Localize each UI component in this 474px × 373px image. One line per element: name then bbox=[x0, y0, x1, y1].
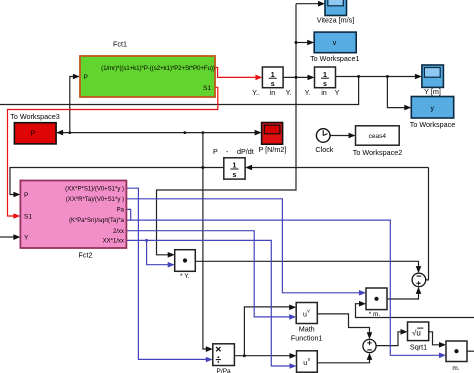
wire branch down to y workspace bbox=[387, 77, 405, 108]
wire blue Fct2 out6 to u^v2 bottom bbox=[126, 240, 291, 366]
wire blue Fct2 out4 to m. bottom bbox=[126, 220, 440, 355]
wire Math Function1 output to lower sum circle top bbox=[317, 314, 369, 335]
block u^v (second math function) bbox=[297, 351, 318, 372]
wire u^v2 output to lower sum circle bottom bbox=[317, 358, 369, 363]
svg-text:XX*1/xx: XX*1/xx bbox=[103, 239, 124, 245]
wire P/Pa output to u^v2 and Math Function1 bbox=[234, 355, 290, 357]
svg-text:P [N/m2]: P [N/m2] bbox=[258, 145, 286, 154]
svg-text:s: s bbox=[233, 172, 237, 179]
svg-text:Sqrt1: Sqrt1 bbox=[410, 342, 427, 351]
block Clock bbox=[315, 129, 333, 154]
svg-text:Y [m]: Y [m] bbox=[424, 87, 441, 96]
svg-text:P: P bbox=[24, 192, 28, 199]
wire y=317.5 from right edge into •m. bottom input bbox=[356, 304, 474, 318]
wire velocity vertical trunk x=296 down to *Y. bbox=[157, 4, 297, 255]
block integrator in (second 1/s) bbox=[315, 67, 336, 88]
svg-text:Y..: Y.. bbox=[252, 88, 260, 97]
wire P horizontal y=132.6 to To Workspace3 (left arrow) and P scope (right arrow) bbox=[61, 132, 256, 134]
sum circle top (dP/dt sum) bbox=[412, 273, 426, 287]
block To Workspace2 (ceas4) bbox=[353, 126, 402, 157]
svg-text:Pa: Pa bbox=[117, 208, 125, 214]
wire to v workspace bbox=[296, 42, 309, 44]
sum circle lower bbox=[363, 339, 376, 352]
wire lower circle output to Sqrt1 bbox=[376, 332, 402, 346]
svg-text:Viteza [m/s]: Viteza [m/s] bbox=[317, 16, 354, 25]
wire red S1 loop to Fct2 bbox=[8, 87, 218, 216]
block Math Function1 u^v bbox=[291, 303, 323, 343]
svg-text:P/Pa: P/Pa bbox=[217, 368, 231, 373]
svg-text:Y.: Y. bbox=[305, 88, 311, 97]
svg-text:dP/dt: dP/dt bbox=[237, 147, 254, 156]
wire blue Fct2 out5 to Math Function1 bottom bbox=[126, 231, 290, 317]
block product * Y. bbox=[175, 250, 196, 280]
svg-text:* Y.: * Y. bbox=[180, 273, 190, 280]
wire •m. output up into sum circle bottom bbox=[387, 292, 419, 299]
svg-text:(1/mr)*((s1+k1)*P-((s2+k1)*P2+: (1/mr)*((s1+k1)*P-((s2+k1)*P2+St*P0+Fu)) bbox=[101, 65, 215, 72]
wire Clock to ceas4 bbox=[330, 135, 350, 137]
wire P net: reversed integrator output to Fct2 P bbox=[10, 168, 224, 195]
svg-text:To Workspace1: To Workspace1 bbox=[310, 54, 359, 63]
svg-text:P: P bbox=[213, 147, 218, 156]
block To Workspace (y) bbox=[410, 97, 455, 130]
svg-text:To Workspace3: To Workspace3 bbox=[10, 112, 59, 121]
svg-text:s: s bbox=[271, 81, 275, 88]
wire *Y. output to top sum circle bbox=[195, 261, 418, 268]
wire Sqrt1 output to m. top bbox=[429, 332, 441, 345]
svg-text:* m.: * m. bbox=[369, 311, 381, 318]
svg-text:(K*Pa*Sn)/sqrt(Ta)*a: (K*Pa*Sn)/sqrt(Ta)*a bbox=[69, 218, 125, 224]
svg-text:in: in bbox=[321, 88, 327, 97]
svg-text:Fct1: Fct1 bbox=[113, 40, 127, 49]
block product m. bbox=[446, 341, 467, 372]
block Fct2 bbox=[20, 181, 126, 260]
wire m. output to right edge bbox=[467, 350, 474, 352]
block reversed integrator 1/s (dP/dt) bbox=[224, 158, 245, 179]
block integrator in (first 1/s) bbox=[262, 67, 283, 88]
svg-text:m.: m. bbox=[452, 365, 459, 372]
svg-text:y: y bbox=[431, 105, 435, 112]
svg-text:(XX*P*S1)/(V0+S1*y ): (XX*P*S1)/(V0+S1*y ) bbox=[65, 187, 124, 193]
block divide P/Pa bbox=[213, 344, 235, 373]
wire Y input of Fct2 from left edge bbox=[0, 236, 15, 238]
wire blue Fct2 out1 to P/Pa bottom bbox=[126, 188, 207, 359]
svg-text:√u: √u bbox=[412, 328, 421, 337]
svg-text:ceas4: ceas4 bbox=[369, 133, 387, 140]
svg-text:P: P bbox=[31, 130, 36, 137]
svg-text:S1: S1 bbox=[24, 213, 32, 220]
wire P up to Fct1 input bbox=[70, 77, 74, 133]
svg-text:To Workspace: To Workspace bbox=[410, 120, 455, 129]
svg-text:Y.: Y. bbox=[286, 88, 292, 97]
wire blue Fct2 out2 to •m. top bbox=[126, 199, 360, 293]
block product • m. bbox=[366, 288, 387, 318]
svg-text:To Workspace2: To Workspace2 bbox=[353, 148, 402, 157]
arrow into *Y. top input bbox=[168, 252, 175, 258]
wire Y feedback long left line y=104.5 bbox=[0, 77, 359, 105]
svg-text:Y: Y bbox=[335, 88, 340, 97]
svg-text:in: in bbox=[270, 88, 276, 97]
wire blue out6 branch to *Y. bottom bbox=[147, 240, 169, 264]
block To Workspace3 bbox=[10, 112, 59, 144]
svg-text:Clock: Clock bbox=[315, 145, 333, 154]
svg-text:(XX*R*Ta)/(V0+S1*y ): (XX*R*Ta)/(V0+S1*y ) bbox=[66, 197, 124, 203]
block To Workspace1 (v) bbox=[310, 32, 359, 63]
svg-text:Y: Y bbox=[24, 234, 29, 241]
scope Viteza [m/s] bbox=[317, 0, 354, 25]
svg-text:2/xx: 2/xx bbox=[113, 229, 124, 235]
block Sqrt1 bbox=[408, 322, 429, 351]
block Fct1 bbox=[80, 40, 215, 98]
scope P [N/m2] bbox=[258, 123, 286, 155]
wire blue Pa jog bbox=[126, 209, 130, 220]
svg-text:S1: S1 bbox=[203, 85, 211, 92]
svg-text:Math: Math bbox=[299, 324, 315, 333]
wire integrator2 out to Y scope bbox=[336, 76, 417, 78]
wire dP/dt into reversed integrator (right to left) bbox=[251, 167, 429, 169]
svg-text:s: s bbox=[323, 81, 327, 88]
wire integrator1 to integrator2 bbox=[283, 76, 308, 78]
svg-text:v: v bbox=[333, 40, 337, 47]
wire sum circle output up right side x=428.5 bbox=[426, 168, 429, 280]
wire P vertical x=202.9 down to P/Pa bbox=[203, 133, 207, 349]
wire red Fct1 out1 to integrator1 bbox=[215, 68, 257, 78]
svg-text:Function1: Function1 bbox=[291, 333, 323, 342]
wire to Viteza scope bbox=[296, 3, 320, 5]
svg-text:P: P bbox=[84, 74, 88, 81]
scope Y [m] bbox=[422, 65, 444, 96]
svg-text:Fct2: Fct2 bbox=[79, 251, 93, 260]
